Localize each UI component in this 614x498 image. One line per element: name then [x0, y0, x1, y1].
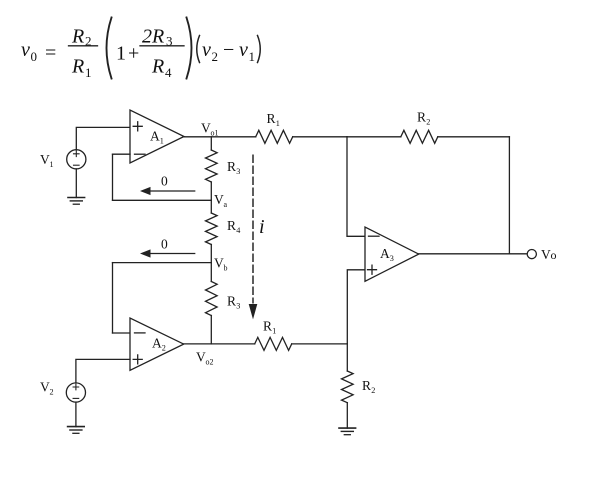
source V2 — [66, 383, 85, 402]
svg-text:1: 1 — [160, 137, 164, 146]
svg-text:o2: o2 — [206, 358, 214, 367]
resistor R4 — [206, 213, 218, 245]
svg-text:1: 1 — [272, 327, 276, 336]
svg-text:R: R — [227, 294, 236, 309]
wire R3 to node Va — [210, 182, 212, 200]
source V1 — [67, 150, 86, 169]
formula v0 = (R2/R1)(1+2R3/R4)(v2-v1) — [21, 18, 260, 81]
svg-text:0: 0 — [161, 174, 168, 189]
wire A2 - input stub — [113, 332, 131, 334]
wire A2 feedback vertical — [112, 263, 114, 333]
svg-text:2: 2 — [426, 118, 430, 127]
svg-text:4: 4 — [165, 65, 172, 80]
node Vo1 label — [201, 121, 219, 138]
svg-text:R: R — [417, 110, 426, 125]
node Vb label — [214, 256, 228, 273]
wire A3 output to terminal — [419, 253, 527, 255]
wire R2 to ground — [346, 403, 348, 428]
node Vo2 label — [196, 350, 214, 367]
resistor R2 (bottom) — [342, 371, 354, 403]
wire junction down to R2 — [346, 344, 348, 371]
wire Va to R4 — [210, 200, 212, 213]
wire R1 bottom to junction — [292, 343, 348, 345]
svg-text:0: 0 — [31, 49, 38, 64]
svg-text:1: 1 — [276, 119, 280, 128]
ground (under R2) — [339, 428, 356, 435]
svg-text:2: 2 — [212, 49, 219, 64]
svg-text:R: R — [267, 111, 276, 126]
wire A1 output to node Vo1 — [184, 136, 256, 138]
current arrow 0 (upper) — [140, 187, 195, 195]
wire A2 + input to V2 — [76, 359, 130, 383]
label A1 — [150, 129, 164, 146]
wire R2 top to right vertical — [438, 136, 510, 138]
svg-text:=: = — [45, 42, 56, 64]
wire R3 bottom to Vo2 node — [210, 316, 212, 344]
current arrow 0 (lower) — [140, 249, 195, 257]
svg-text:1: 1 — [50, 160, 54, 169]
op-amp A1 — [130, 110, 184, 163]
svg-text:+: + — [128, 43, 139, 65]
label 0 (lower) — [161, 237, 168, 252]
wire down to A3 - input — [347, 137, 365, 237]
svg-text:V: V — [40, 380, 50, 395]
svg-text:3: 3 — [236, 167, 240, 176]
svg-text:v: v — [202, 39, 211, 61]
output terminal circle — [527, 250, 536, 259]
svg-text:R: R — [227, 218, 236, 233]
svg-text:1: 1 — [116, 43, 126, 65]
wire V2 to ground — [75, 402, 77, 427]
wire V1 to A1 + input — [76, 127, 130, 149]
svg-text:1: 1 — [85, 65, 92, 80]
ground (under V1) — [68, 198, 85, 205]
wire junction up to A3 + input — [347, 270, 365, 344]
svg-text:A: A — [150, 129, 160, 144]
ground (under V2) — [68, 427, 85, 434]
svg-text:R: R — [71, 56, 84, 78]
label R1 (bottom) — [263, 319, 276, 336]
op-amp A2 — [130, 318, 184, 370]
label R2 (top) — [417, 110, 430, 127]
svg-text:R: R — [71, 26, 84, 48]
svg-text:o: o — [551, 248, 557, 262]
svg-text:2R: 2R — [142, 26, 164, 48]
label R3 (top) — [227, 159, 240, 176]
label V1 — [40, 152, 54, 169]
svg-text:o1: o1 — [211, 129, 219, 138]
svg-text:V: V — [196, 350, 206, 365]
svg-text:R: R — [263, 319, 272, 334]
svg-text:2: 2 — [371, 386, 375, 395]
svg-text:V: V — [201, 121, 211, 136]
resistor R1 (bottom) — [255, 337, 292, 350]
svg-text:A: A — [152, 336, 162, 351]
wire A2 output to R1 — [184, 343, 255, 345]
wire R1 top to junction at A3 - branch — [293, 136, 347, 138]
svg-text:i: i — [259, 216, 265, 238]
wire Va horizontal — [113, 199, 212, 201]
svg-text:−: − — [223, 39, 234, 61]
wire Vb to R3 bottom — [210, 263, 212, 282]
svg-text:3: 3 — [236, 302, 240, 311]
resistor R1 (top) — [256, 130, 293, 143]
svg-text:b: b — [224, 264, 228, 273]
svg-text:R: R — [362, 378, 371, 393]
label i — [259, 216, 265, 238]
svg-text:R: R — [227, 159, 236, 174]
resistor R3 (top) — [206, 150, 218, 182]
svg-text:v: v — [239, 39, 248, 61]
svg-text:2: 2 — [50, 388, 54, 397]
label 0 (upper) — [161, 174, 168, 189]
svg-text:A: A — [380, 246, 390, 261]
svg-text:V: V — [40, 152, 50, 167]
node Va label — [214, 192, 228, 209]
label A3 — [380, 246, 394, 263]
wire Vb horizontal — [113, 262, 212, 264]
svg-text:V: V — [214, 256, 224, 271]
wire V1 to ground — [75, 169, 77, 198]
label Vo — [541, 247, 557, 262]
wire Vo1 down to R3 — [210, 137, 212, 150]
resistor R3 (bottom) — [206, 282, 218, 316]
label R1 (top) — [267, 111, 280, 128]
svg-text:2: 2 — [162, 344, 166, 353]
svg-text:3: 3 — [390, 254, 394, 263]
svg-text:a: a — [224, 200, 228, 209]
svg-text:V: V — [541, 247, 551, 262]
svg-text:4: 4 — [236, 226, 240, 235]
label R3 (bottom) — [227, 294, 240, 311]
svg-text:1: 1 — [249, 49, 256, 64]
op-amp A3 — [365, 227, 419, 281]
wire right vertical feedback — [508, 137, 510, 254]
label A2 — [152, 336, 166, 353]
svg-text:V: V — [214, 192, 224, 207]
label R2 (bottom) — [362, 378, 375, 395]
wire A1 - input stub — [113, 153, 131, 155]
label R4 — [227, 218, 240, 235]
label V2 — [40, 380, 54, 397]
dashed current line i — [249, 156, 258, 320]
svg-text:R: R — [151, 56, 164, 78]
wire A1 feedback vertical — [112, 154, 114, 200]
wire R4 to node Vb — [210, 245, 212, 263]
wire junction to R2 top — [347, 136, 401, 138]
svg-text:0: 0 — [161, 237, 168, 252]
resistor R2 (top feedback) — [401, 130, 438, 143]
svg-text:v: v — [21, 39, 30, 61]
